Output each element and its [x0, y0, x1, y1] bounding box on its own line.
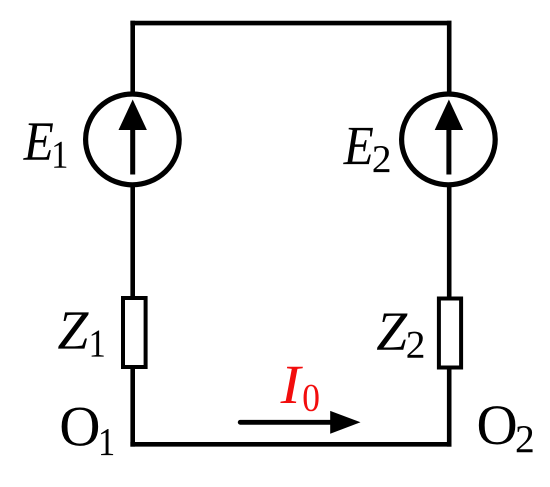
label E2: [343, 128, 389, 172]
wire left vertical upper (corner to E1 source): [130, 21, 135, 97]
node O1 label: [62, 408, 113, 456]
voltage source E1 (circle with upward arrow): [86, 94, 180, 185]
wire top horizontal: [130, 21, 451, 26]
node O2 label: [479, 406, 533, 452]
voltage source E2 (circle with upward arrow): [402, 94, 496, 185]
label Z1: [58, 312, 104, 356]
wire bottom horizontal (node O1 to node O2): [130, 442, 451, 447]
wire right vertical upper (corner to E2 source): [447, 21, 452, 97]
wire left vertical lower (Z1 to node O1): [130, 367, 135, 447]
wire right vertical lower (Z2 to node O2): [447, 367, 452, 447]
label Z2: [377, 313, 423, 357]
impedance Z2 (rectangle): [439, 299, 461, 368]
impedance Z1 (rectangle): [123, 298, 146, 367]
current arrow I0 (direction of loop current): [240, 411, 360, 434]
label E1: [23, 123, 66, 167]
label I0 (red current label): [280, 367, 318, 412]
wire right vertical middle (E2 source to Z2): [447, 182, 452, 298]
wire left vertical middle (E1 source to Z1): [130, 182, 135, 298]
